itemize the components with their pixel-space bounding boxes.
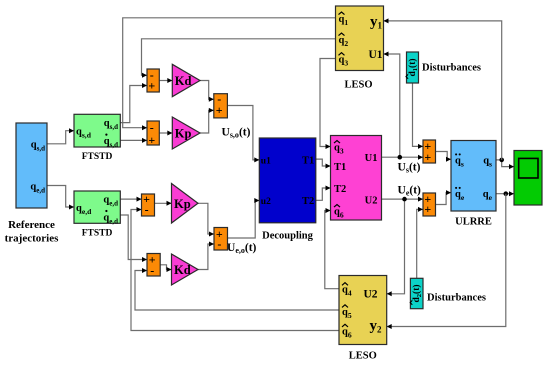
wire gain Kd2 to sum S5 minus — [198, 242, 214, 270]
gain Kp1 — [172, 117, 200, 149]
svg-text:T1: T1 — [302, 156, 314, 167]
wire gain Kd1 to sum S3 minus — [200, 81, 214, 102]
wire Us(t) from plant U1 to sum S7 — [382, 155, 424, 160]
sum S8 (Ue + d2) — [423, 192, 436, 216]
gain Kp2 — [172, 184, 199, 224]
svg-text:LESO: LESO — [349, 351, 377, 362]
svg-text:U2: U2 — [365, 195, 378, 206]
wire qhat1 feedback from LESO1 to sum S2 minus — [123, 18, 336, 130]
block FTSTD 1 — [74, 114, 120, 162]
svg-text:ULRRE: ULRRE — [455, 217, 492, 228]
svg-text:U1: U1 — [368, 49, 382, 61]
wire sum S2 to gain Kp1 — [159, 131, 172, 136]
sum S1 (Kd branch) — [147, 68, 159, 92]
svg-text:Us(t): Us(t) — [398, 162, 421, 175]
svg-text:+: + — [216, 103, 223, 117]
svg-text:Kp: Kp — [174, 197, 191, 211]
svg-text:-: - — [145, 202, 149, 216]
svg-text:FTSTD: FTSTD — [82, 229, 113, 239]
wire qs,d from FTSTD1 up to sum S1 plus — [120, 83, 147, 123]
wire Ue,o(t) from sum S5 to Decoupling u2 — [228, 198, 260, 238]
wire qs feedback to LESO1 y1 — [384, 18, 502, 160]
block ULRRE — [451, 141, 496, 228]
label Disturbances 1 — [422, 63, 481, 74]
block LESO 1 — [336, 6, 384, 91]
sum S7 (Us + d1) — [423, 139, 436, 164]
wire qhat5 feedback from LESO2 to sum S6 minus — [135, 268, 339, 310]
label Ue,o(t) — [227, 242, 257, 255]
svg-text:Disturbances: Disturbances — [427, 293, 486, 304]
svg-text:trajectories: trajectories — [5, 233, 59, 245]
label Ue(t) — [398, 184, 422, 197]
svg-text:Ue(t): Ue(t) — [398, 184, 422, 197]
wire qe,d from Reference trajectories to FTSTD2 — [47, 186, 74, 210]
wire U1 branch up to LESO1 — [384, 52, 403, 160]
wire qs,d from Reference trajectories to FTSTD1 — [47, 128, 74, 144]
svg-text:T2: T2 — [334, 184, 346, 195]
wire sum S7 to ULRRE qdd s — [436, 152, 452, 162]
wire Us,o(t) from sum S3 to Decoupling u1 — [227, 106, 259, 163]
wire gain Kp1 to sum S3 plus — [200, 108, 214, 133]
wire U2 branch down to LESO2 — [387, 197, 407, 296]
svg-text:Ue,o(t): Ue,o(t) — [227, 242, 257, 255]
svg-text:-: - — [217, 237, 221, 251]
block Decoupling — [259, 138, 316, 242]
svg-text:d1(t): d1(t) — [407, 58, 419, 76]
block robot plant (pink) — [331, 136, 382, 221]
svg-text:+: + — [148, 133, 155, 147]
svg-text:Kd: Kd — [174, 263, 191, 277]
wire qe,d from FTSTD2 to sum S4 plus — [120, 197, 141, 202]
wire sum S8 to ULRRE qdd e — [436, 190, 452, 204]
block disturbance d2(t) — [410, 278, 423, 308]
svg-text:Kp: Kp — [175, 127, 192, 141]
block Reference trajectories — [5, 123, 59, 245]
svg-text:FTSTD: FTSTD — [82, 152, 113, 162]
wire qhat3 from LESO1 to plant — [320, 59, 336, 150]
block disturbance d1(t) — [406, 52, 419, 83]
wire T1 from Decoupling to plant — [316, 159, 331, 168]
sum S3 (Us,o) — [214, 92, 228, 118]
svg-text:U2: U2 — [363, 289, 377, 301]
wire T2 from Decoupling to plant — [316, 186, 331, 201]
wire Ue(t) from plant U2 to sum S8 — [382, 197, 424, 202]
wire dhat2 disturbance to sum S8 plus — [417, 207, 423, 278]
label Disturbances 2 — [427, 293, 486, 304]
wire dhat1 disturbance to sum S7 plus — [413, 83, 424, 149]
svg-text:+: + — [148, 78, 155, 92]
svg-text:Kd: Kd — [175, 74, 192, 88]
wire gain Kp2 to sum S5 plus — [198, 203, 214, 236]
gain Kd1 — [172, 64, 200, 96]
svg-text:u1: u1 — [261, 156, 271, 166]
wire sum S1 to gain Kd1 — [159, 78, 172, 83]
svg-text:T1: T1 — [334, 162, 346, 173]
wire qe from ULRRE to Scope — [496, 191, 514, 196]
label Us,o(t) — [222, 126, 251, 139]
svg-text:Reference: Reference — [8, 219, 55, 231]
wire qhat2 feedback from LESO1 to sum S1 minus — [142, 39, 336, 78]
svg-text:LESO: LESO — [344, 80, 372, 91]
label Us(t) — [398, 162, 421, 175]
wire qhat6 feedback from LESO2 to sum S4 minus — [131, 207, 339, 331]
svg-text:+: + — [424, 150, 431, 164]
wire qe feedback to LESO2 y2 — [387, 194, 506, 329]
svg-text:U1: U1 — [365, 153, 378, 164]
svg-text:T2: T2 — [302, 196, 314, 207]
sum S6 (Kd2 branch) — [147, 252, 160, 277]
svg-text:+: + — [424, 202, 431, 216]
svg-text:Disturbances: Disturbances — [422, 63, 481, 74]
svg-text:Decoupling: Decoupling — [262, 231, 314, 242]
block FTSTD 2 — [74, 191, 120, 239]
sum S4 (Kp2 branch) — [142, 192, 155, 216]
sum S5 (Ue,o) — [214, 227, 228, 251]
sum S2 (Kp branch) — [147, 121, 159, 148]
wire sum S4 to gain Kp2 — [155, 201, 172, 206]
svg-text:d2(t): d2(t) — [411, 284, 423, 302]
wire qdot s,d from FTSTD1 to sum S2 plus — [120, 138, 147, 143]
wire qs from ULRRE to Scope — [496, 158, 514, 170]
wire qhat4 from LESO2 to plant qhat6 input — [325, 208, 339, 289]
gain Kd2 — [172, 254, 199, 285]
block LESO 2 — [339, 276, 387, 362]
svg-text:u2: u2 — [261, 197, 271, 207]
wire sum S6 to gain Kd2 — [160, 265, 171, 272]
svg-text:-: - — [150, 263, 154, 277]
block Scope — [514, 151, 542, 206]
svg-text:Us,o(t): Us,o(t) — [222, 126, 251, 139]
wire qdot e,d from FTSTD2 down to sum S6 plus — [120, 215, 147, 262]
